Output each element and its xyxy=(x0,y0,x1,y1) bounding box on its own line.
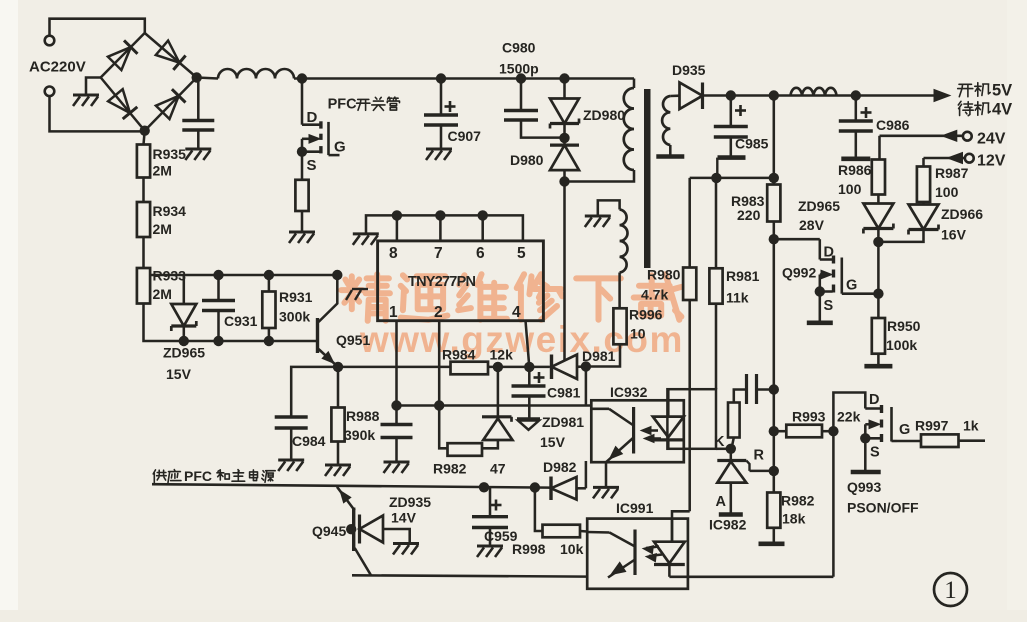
node ref xyxy=(769,466,779,476)
svg-text:D: D xyxy=(869,392,879,408)
node ZD981 xyxy=(493,362,503,372)
resistor R981 xyxy=(709,268,722,303)
resistor R982 18k xyxy=(767,493,780,528)
ground R950 (bar) xyxy=(864,364,892,369)
svg-text:G: G xyxy=(899,422,910,438)
capacitor C984 xyxy=(275,415,308,418)
bias winding bracket xyxy=(598,200,620,215)
wire D982 to IC932 xyxy=(585,461,588,488)
wire feedback bus xyxy=(397,404,592,407)
svg-text:S: S xyxy=(824,298,834,314)
node Q992 gate xyxy=(873,289,883,299)
wire upper sample bus xyxy=(151,274,338,277)
wire R984 to D981 xyxy=(488,366,550,369)
wire filter cap to ground xyxy=(197,130,200,148)
svg-text:2M: 2M xyxy=(153,286,172,302)
svg-text:S: S xyxy=(870,445,880,461)
svg-text:15V: 15V xyxy=(540,434,566,450)
svg-text:R982: R982 xyxy=(433,461,467,477)
svg-text:28V: 28V xyxy=(799,217,825,233)
terminal AC top xyxy=(45,36,55,46)
svg-text:Q992: Q992 xyxy=(782,265,816,281)
scan mark xyxy=(346,290,352,300)
resistor R950 xyxy=(872,318,885,354)
wire C980 to clamp node xyxy=(521,120,562,138)
svg-text:5V: 5V xyxy=(992,82,1012,100)
wire Q951 emitter to R984 xyxy=(338,366,451,369)
wire IC982 anode xyxy=(730,483,733,514)
svg-text:4: 4 xyxy=(512,304,521,321)
wire C959 to ground xyxy=(489,528,492,546)
common symbol below C981 xyxy=(517,417,540,420)
wire to R931 xyxy=(268,275,271,292)
wire gate to R997 xyxy=(897,440,921,443)
svg-text:390k: 390k xyxy=(344,427,375,443)
svg-text:4.7k: 4.7k xyxy=(641,287,668,303)
node D981/R996 xyxy=(581,361,591,371)
svg-text:100: 100 xyxy=(838,181,862,197)
svg-text:D980: D980 xyxy=(510,152,544,168)
wire to ZD965 xyxy=(183,275,186,304)
svg-text:2M: 2M xyxy=(153,163,172,179)
input 12V xyxy=(924,157,966,160)
figure number 1 xyxy=(934,573,967,606)
svg-text:ZD965: ZD965 xyxy=(163,345,205,361)
zener ZD965 15V xyxy=(171,304,196,326)
svg-text:24V: 24V xyxy=(977,131,1006,148)
ground IC982 (bar) xyxy=(719,512,743,517)
resistor R933 xyxy=(137,268,150,304)
wire AC top to bridge xyxy=(50,19,145,36)
wire R931 to bus xyxy=(268,328,271,341)
resistor R997 1k xyxy=(921,434,959,447)
wire AC bottom to bridge xyxy=(50,96,142,131)
IC U1 TNY277PN xyxy=(378,241,544,321)
node C981/pin4 xyxy=(524,362,534,372)
svg-text:ZD966: ZD966 xyxy=(941,206,983,222)
wire R982 to ground xyxy=(773,528,776,544)
wire supply PFC line xyxy=(152,484,550,487)
TNY source bus xyxy=(366,215,523,241)
diode D935 xyxy=(680,83,703,110)
node Q945 base xyxy=(346,524,356,534)
wire clamp to D981 xyxy=(563,171,566,362)
wire bias to R996 xyxy=(618,273,621,309)
capacitor C986 xyxy=(839,119,873,122)
IC982 TL431 xyxy=(730,449,733,460)
pin1 wire xyxy=(395,321,398,406)
svg-text:ZD935: ZD935 xyxy=(389,494,431,510)
svg-text:15V: 15V xyxy=(166,366,192,382)
ground C985 (bar) xyxy=(718,155,746,160)
IC991 LED xyxy=(654,542,685,564)
IC991 phototransistor xyxy=(587,531,609,534)
svg-text:12V: 12V xyxy=(977,153,1006,170)
svg-text:16V: 16V xyxy=(941,227,967,243)
svg-text:G: G xyxy=(846,278,857,294)
capacitor C980 xyxy=(504,109,538,112)
inductor output filter xyxy=(791,88,837,96)
bridge diode top-left xyxy=(108,47,131,70)
svg-text:300k: 300k xyxy=(279,309,310,325)
wire IC932 emitter to ground xyxy=(605,462,608,486)
svg-text:IC932: IC932 xyxy=(610,384,648,400)
wire C984 to ground xyxy=(290,428,293,459)
ground C984 xyxy=(278,459,304,462)
wire C986 down xyxy=(855,131,858,159)
resistor R934 xyxy=(137,202,150,237)
wire ZD965 to bus xyxy=(183,327,186,342)
wire comp cap to column xyxy=(757,388,774,391)
wire secondary to D935 xyxy=(670,94,679,97)
diode D980 xyxy=(550,145,579,170)
wire 12V to R987 xyxy=(922,158,925,167)
node Q951 emitter xyxy=(333,362,343,372)
label 开机5V xyxy=(958,84,973,96)
wire primary bottom to clamp xyxy=(565,170,635,182)
resistor R982 47 xyxy=(448,443,483,456)
wire to C980 xyxy=(520,79,523,111)
node Q992 drain branch xyxy=(769,234,779,244)
svg-text:R986: R986 xyxy=(838,162,872,178)
wire to ground xyxy=(301,211,304,231)
svg-text:R931: R931 xyxy=(279,289,313,305)
svg-text:8: 8 xyxy=(389,245,398,262)
zener ZD935 14V xyxy=(358,515,361,544)
node primary bottom xyxy=(559,176,569,186)
transformer primary winding xyxy=(624,88,634,170)
resistor PFC source xyxy=(295,180,308,211)
svg-text:10k: 10k xyxy=(560,541,584,557)
svg-text:14V: 14V xyxy=(391,510,417,526)
wire IC982 ref xyxy=(750,470,774,473)
wire C931 to bus xyxy=(217,311,220,342)
svg-text:C981: C981 xyxy=(547,385,581,401)
capacitor BP (pin1) xyxy=(381,423,413,426)
resistor R993 22k xyxy=(786,425,822,438)
wire to R981 xyxy=(715,178,718,268)
pin7 stub xyxy=(439,215,442,241)
svg-text:1k: 1k xyxy=(963,418,979,434)
ground C959 xyxy=(477,545,503,548)
wire ZD966 to node xyxy=(878,231,923,242)
svg-text:1500p: 1500p xyxy=(499,61,539,77)
transistor Q945 xyxy=(352,508,355,552)
node K xyxy=(726,444,736,454)
wire R982 to pin2 bus xyxy=(439,406,447,449)
bridge rectifier diamond xyxy=(101,33,197,131)
svg-text:4V: 4V xyxy=(992,101,1012,119)
capacitor comp (K node) xyxy=(745,374,748,404)
svg-text:10: 10 xyxy=(630,326,646,342)
svg-text:R996: R996 xyxy=(629,307,663,323)
svg-text:R988: R988 xyxy=(346,408,380,424)
svg-text:R993: R993 xyxy=(792,409,826,425)
wire bridge to inductor xyxy=(197,78,218,79)
svg-text:IC991: IC991 xyxy=(616,500,654,516)
node C985/R981 xyxy=(711,173,721,183)
ground BP cap xyxy=(384,461,410,464)
wire to C981 xyxy=(528,367,531,386)
wire to C986 xyxy=(855,96,858,122)
svg-text:220: 220 xyxy=(737,207,761,223)
IC932 light arrows xyxy=(644,429,658,432)
node Q951 collector xyxy=(332,270,342,280)
svg-text:TNY277PN: TNY277PN xyxy=(408,274,476,290)
node comp cap xyxy=(769,384,779,394)
pin4 wire xyxy=(526,321,530,367)
svg-text:Q945: Q945 xyxy=(312,523,346,539)
capacitor C981 xyxy=(512,384,546,387)
ground IC932 emitter xyxy=(593,486,619,489)
pin6 stub xyxy=(481,215,484,241)
wire to C907 xyxy=(440,79,443,116)
svg-text:D982: D982 xyxy=(543,459,577,475)
zener ZD980 xyxy=(550,99,579,124)
terminal AC bottom xyxy=(45,87,55,97)
wire rail to R983 node xyxy=(773,96,776,178)
node pin2 bus xyxy=(434,400,444,410)
wire rail to ZD980 xyxy=(563,79,566,99)
svg-text:C931: C931 xyxy=(224,313,258,329)
svg-text:Q993: Q993 xyxy=(847,479,881,495)
svg-text:11k: 11k xyxy=(726,290,749,306)
wire to ZD981 xyxy=(497,367,500,417)
wire D981 anode xyxy=(577,365,586,368)
svg-text:100: 100 xyxy=(935,184,959,200)
wire R996 to D981 node xyxy=(586,344,620,366)
wire to C984 xyxy=(291,367,338,417)
wire ZD935 to ground xyxy=(383,529,410,543)
wire lower sample bus xyxy=(144,304,318,342)
svg-text:G: G xyxy=(334,139,346,156)
svg-text:2: 2 xyxy=(434,304,443,321)
wire R980 down xyxy=(688,300,691,511)
svg-text:ZD980: ZD980 xyxy=(583,107,625,123)
svg-text:5: 5 xyxy=(517,245,526,262)
wire to R980 xyxy=(688,178,691,268)
ground C907 xyxy=(426,148,452,151)
wire R935-R934 xyxy=(142,178,145,203)
svg-text:A: A xyxy=(716,494,727,510)
svg-text:R987: R987 xyxy=(935,165,969,181)
svg-text:D: D xyxy=(307,109,318,126)
svg-text:1: 1 xyxy=(389,304,398,321)
wire R986 to zener xyxy=(877,195,880,204)
input 24V xyxy=(880,135,964,138)
wire C907 to ground xyxy=(440,125,443,148)
wire C981 down xyxy=(528,396,531,419)
wire R950 to ground xyxy=(877,354,880,366)
resistor R996 xyxy=(613,308,626,344)
wire main column down xyxy=(773,239,776,492)
arrow output 5V xyxy=(934,90,950,102)
ground bias winding xyxy=(585,215,611,218)
wire bottom bus right xyxy=(669,576,833,579)
wire 5V rail xyxy=(703,94,941,97)
label 供应PFC和主电源 xyxy=(153,470,166,483)
resistor R998 10k xyxy=(543,525,581,538)
svg-text:R984: R984 xyxy=(442,347,476,363)
wire D981 node to bus xyxy=(585,367,588,406)
svg-text:R934: R934 xyxy=(153,203,187,219)
svg-text:7: 7 xyxy=(434,245,443,262)
ground C986 (bar) xyxy=(841,157,870,162)
resistor R931 xyxy=(262,292,275,329)
transistor Q951 xyxy=(316,318,319,353)
svg-text:1: 1 xyxy=(944,577,957,604)
svg-text:ZD981: ZD981 xyxy=(542,414,584,430)
node zener join xyxy=(873,237,883,247)
wire D982 anode xyxy=(577,487,586,490)
ground Q992 source (bar) xyxy=(807,320,833,325)
wire rail to primary xyxy=(633,79,636,89)
IC991 light arrows xyxy=(646,547,659,549)
node C907 xyxy=(436,73,446,83)
svg-text:47: 47 xyxy=(490,461,506,477)
wire to BP cap xyxy=(395,406,398,425)
ground TNY source xyxy=(353,232,379,235)
svg-text:Q951: Q951 xyxy=(336,332,370,348)
node C985 xyxy=(726,90,736,100)
wire ZD980-D980 xyxy=(563,125,566,145)
svg-text:R998: R998 xyxy=(512,541,546,557)
IC932 phototransistor xyxy=(591,408,609,411)
svg-text:R980: R980 xyxy=(647,267,681,283)
optocoupler IC932 box xyxy=(591,400,684,462)
svg-text:D: D xyxy=(824,245,834,261)
svg-text:R997: R997 xyxy=(915,418,949,434)
ground R982 18k (bar) xyxy=(759,541,785,546)
svg-text:12k: 12k xyxy=(490,347,514,363)
svg-text:K: K xyxy=(714,434,725,450)
svg-text:C907: C907 xyxy=(448,128,482,144)
wire comp cap to resistor xyxy=(734,390,747,403)
wire to C959 xyxy=(489,487,492,516)
bridge diode bottom-right xyxy=(156,96,179,119)
diode D982 xyxy=(549,477,552,501)
wire comp resistor to K xyxy=(732,438,734,449)
zener ZD966 xyxy=(909,205,939,230)
svg-text:R935: R935 xyxy=(153,146,187,162)
node bridge + output xyxy=(192,72,202,82)
resistor R935 xyxy=(137,145,150,178)
svg-text:D935: D935 xyxy=(672,62,706,78)
diode D981 xyxy=(550,355,553,380)
optocoupler IC991 box xyxy=(587,519,688,589)
wire R998 to IC991 xyxy=(580,530,587,533)
capacitor C985 xyxy=(714,125,748,128)
node R983 rail xyxy=(769,90,779,100)
MOSFET Q993 xyxy=(833,393,865,432)
wire R981 to IC932 LED xyxy=(715,304,718,390)
wire jog to IC991 LED xyxy=(672,511,690,541)
wire to filter cap xyxy=(197,78,200,121)
svg-text:C986: C986 xyxy=(876,117,910,133)
wire to R988 xyxy=(337,367,340,408)
resistor R983 xyxy=(767,185,780,222)
svg-text:PFC: PFC xyxy=(184,468,212,484)
node C959 xyxy=(479,482,489,492)
wire source to resistor xyxy=(301,152,304,180)
wire to R998 xyxy=(535,488,543,532)
wire ZD981 to R982 xyxy=(482,440,498,448)
wire C985 bar to bias node xyxy=(716,158,718,178)
wire Q993 drain to bus xyxy=(832,431,835,577)
zener ZD981 15V xyxy=(482,415,512,418)
resistor R986 xyxy=(872,160,885,195)
wire R983 down xyxy=(773,222,776,240)
capacitor C959 xyxy=(472,515,508,518)
resistor R980 xyxy=(683,268,696,301)
svg-text:AC220V: AC220V xyxy=(29,59,86,76)
ground ZD935 xyxy=(393,542,419,545)
pin8 stub xyxy=(396,215,399,241)
svg-text:PFC: PFC xyxy=(328,97,358,113)
node ZD980 xyxy=(559,73,569,83)
svg-text:6: 6 xyxy=(476,245,485,262)
svg-text:2M: 2M xyxy=(153,221,172,237)
wire C985 down xyxy=(730,137,733,157)
svg-text:R: R xyxy=(754,448,765,464)
node Q993 drain xyxy=(828,426,838,436)
svg-text:R982: R982 xyxy=(781,493,815,509)
node C980 xyxy=(516,73,526,83)
label 待机4V xyxy=(958,101,973,115)
wire to C931 xyxy=(217,275,220,301)
capacitor filter (bridge) xyxy=(182,119,214,122)
ground secondary (bar) xyxy=(656,154,684,159)
ground R988 xyxy=(325,464,351,467)
resistor R987 xyxy=(917,167,930,203)
node clamp mid xyxy=(559,133,569,143)
wire secondary bottom xyxy=(669,145,672,155)
wire LED frame to K xyxy=(716,448,731,451)
node R993 xyxy=(769,426,779,436)
capacitor C907 (polarized) xyxy=(424,113,458,116)
wire R997 out xyxy=(959,439,986,442)
wire bridge to R935 xyxy=(144,131,145,145)
svg-text:PSON/OFF: PSON/OFF xyxy=(847,500,919,516)
svg-text:22k: 22k xyxy=(837,409,861,425)
node PFC drain xyxy=(297,73,307,83)
ground Q993 source (bar) xyxy=(851,470,881,475)
node R983 top xyxy=(769,173,779,183)
capacitor C931 xyxy=(202,299,235,302)
inductor PFC choke xyxy=(218,69,294,79)
bridge diode top-right xyxy=(156,41,180,63)
wire zener node down xyxy=(877,242,880,318)
PFC MOSFET switch xyxy=(301,79,304,125)
node bridge bottom xyxy=(140,126,150,136)
bridge diode bottom-left xyxy=(108,89,130,113)
svg-text:S: S xyxy=(307,157,317,174)
wire zener to node xyxy=(877,230,880,242)
wire bottom bus left xyxy=(352,575,587,576)
transformer bias winding xyxy=(620,210,628,273)
zener ZD965 28V xyxy=(863,204,893,229)
resistor R988 xyxy=(331,408,344,442)
svg-text:R950: R950 xyxy=(887,318,921,334)
wire PFC rail xyxy=(294,77,634,80)
svg-text:C984: C984 xyxy=(292,433,326,449)
watermark line1 xyxy=(341,274,390,321)
ground filter cap xyxy=(185,148,211,151)
svg-text:C985: C985 xyxy=(735,136,769,152)
svg-text:R981: R981 xyxy=(726,268,760,284)
wire R987 to ZD966 xyxy=(922,202,925,205)
svg-text:ZD965: ZD965 xyxy=(798,198,840,214)
